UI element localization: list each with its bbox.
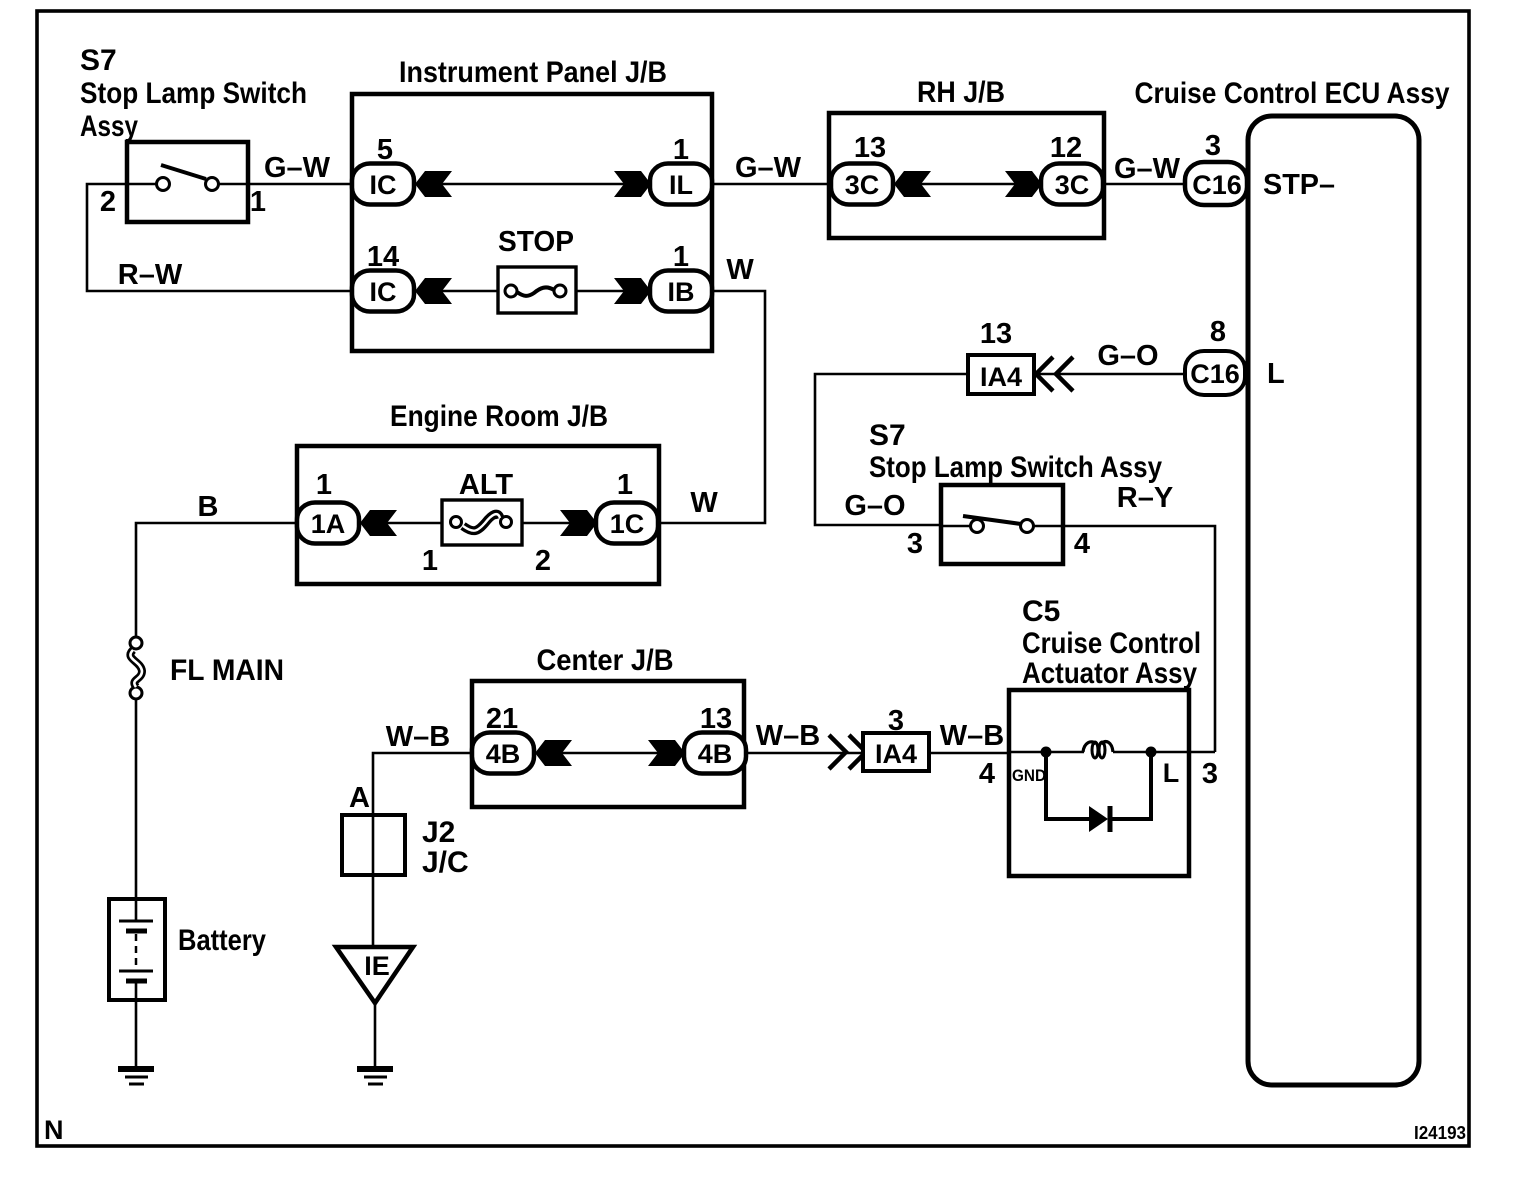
svg-text:Center J/B: Center J/B (537, 644, 674, 677)
arrow right row1 (614, 171, 651, 197)
connector 4B pin13 (684, 733, 746, 774)
arrow left row1 (415, 171, 452, 197)
svg-text:5: 5 (377, 134, 393, 166)
arrow left engine (360, 510, 397, 536)
switch S7 right blade (963, 516, 1021, 524)
connector C16 pin8 (1185, 351, 1245, 395)
svg-text:G–O: G–O (1097, 340, 1158, 372)
svg-text:IC: IC (370, 277, 397, 307)
arrow right center (648, 740, 685, 766)
svg-text:C16: C16 (1192, 170, 1242, 200)
svg-text:R–Y: R–Y (1117, 482, 1173, 514)
wire IB W down to 1C (658, 291, 765, 523)
connector 1C pin1 (596, 503, 658, 544)
svg-text:G–W: G–W (264, 152, 331, 184)
svg-text:FL MAIN: FL MAIN (170, 654, 284, 687)
svg-text:1: 1 (316, 469, 332, 501)
connector 3C pin13 (831, 164, 893, 205)
svg-text:STP–: STP– (1263, 169, 1335, 201)
svg-text:A: A (349, 782, 370, 814)
svg-text:3C: 3C (845, 170, 880, 200)
switch S7 left box (127, 142, 248, 222)
svg-text:L: L (1163, 758, 1180, 788)
ground IE (357, 1066, 393, 1072)
switch S7 left contacts (157, 178, 170, 191)
svg-text:G–O: G–O (844, 490, 905, 522)
wire center internal (534, 752, 684, 755)
svg-text:IA4: IA4 (980, 362, 1022, 392)
svg-text:GND: GND (1012, 766, 1046, 785)
svg-text:3C: 3C (1055, 170, 1090, 200)
svg-text:B: B (198, 491, 219, 523)
svg-text:1C: 1C (610, 509, 645, 539)
svg-text:2: 2 (535, 545, 551, 577)
arrow left row2 (415, 278, 452, 304)
wire switch to IC (248, 183, 352, 186)
wire B (136, 523, 297, 637)
actuator box (1009, 690, 1189, 876)
svg-text:8: 8 (1210, 316, 1226, 348)
wire W-B left (373, 753, 472, 815)
svg-text:W–B: W–B (386, 721, 450, 753)
svg-text:W–B: W–B (756, 720, 820, 752)
svg-text:4B: 4B (486, 739, 521, 769)
svg-text:J2: J2 (422, 816, 455, 849)
svg-text:Stop Lamp Switch Assy: Stop Lamp Switch Assy (869, 451, 1162, 484)
wire engine internal (359, 522, 443, 525)
svg-text:Actuator Assy: Actuator Assy (1022, 657, 1197, 690)
switch S7 left blade (161, 165, 206, 179)
svg-text:W: W (726, 254, 754, 286)
wire IA4 to switch (815, 374, 968, 525)
svg-text:13: 13 (980, 318, 1012, 350)
node L dot (1146, 747, 1157, 758)
ECU box (1248, 116, 1419, 1085)
svg-text:ALT: ALT (459, 469, 514, 501)
wire switch internal right (219, 183, 248, 186)
arrow right RH (1005, 171, 1042, 197)
svg-text:Battery: Battery (178, 924, 266, 957)
svg-text:IL: IL (669, 170, 693, 200)
junction J2 J/C (342, 815, 405, 875)
svg-text:1: 1 (250, 186, 266, 218)
node GND dot (1041, 747, 1052, 758)
svg-text:13: 13 (700, 703, 732, 735)
arrow left RH (894, 171, 931, 197)
svg-text:Cruise Control ECU Assy: Cruise Control ECU Assy (1135, 77, 1450, 110)
svg-text:13: 13 (854, 132, 886, 164)
ground triangle IE (336, 947, 413, 1003)
diode branch wires (1046, 752, 1089, 819)
actuator internal wire (1009, 751, 1084, 754)
svg-text:14: 14 (367, 241, 399, 273)
junction IA4 pin13 (968, 355, 1034, 394)
chevrons into IA4 right (829, 735, 846, 769)
switch S7 right box (941, 485, 1063, 564)
svg-text:RH J/B: RH J/B (917, 76, 1005, 109)
ground battery (118, 1066, 154, 1072)
chevrons into IA4 (1036, 357, 1053, 391)
svg-text:Cruise Control: Cruise Control (1022, 627, 1201, 660)
wire IP row2 internal (414, 290, 498, 293)
connector 4B pin21 (472, 733, 534, 774)
connector 3C pin12 (1041, 164, 1103, 205)
wire 3C to C16 (1103, 183, 1190, 186)
coil (1083, 742, 1096, 752)
battery (109, 899, 165, 1000)
svg-text:STOP: STOP (498, 226, 574, 258)
connector IB pin1 (650, 271, 712, 312)
svg-text:S7: S7 (869, 419, 906, 452)
svg-text:G–W: G–W (735, 152, 802, 184)
wire IL to RH J/B (712, 183, 831, 186)
svg-text:W: W (690, 487, 718, 519)
svg-text:2: 2 (100, 186, 116, 218)
connector IC pin14 (352, 271, 414, 312)
fusible link FL MAIN (130, 637, 142, 649)
RH J/B box (829, 113, 1104, 238)
wire RH internal (893, 183, 1041, 186)
svg-text:3: 3 (907, 528, 923, 560)
svg-text:1: 1 (422, 545, 438, 577)
wire IA4 to actuator (929, 752, 1009, 755)
svg-text:4: 4 (1074, 528, 1090, 560)
Engine Room J/B box (297, 446, 659, 584)
connector IC pin5 (352, 164, 414, 205)
svg-text:Engine Room J/B: Engine Room J/B (390, 400, 608, 433)
arrow right row2 (614, 278, 651, 304)
svg-text:IE: IE (364, 951, 390, 981)
wire battery to ground (135, 1000, 138, 1069)
svg-text:C5: C5 (1022, 595, 1060, 628)
wire switch2 internal (941, 525, 970, 528)
switch S7 right contacts (971, 520, 984, 533)
wire J2 to IE (372, 875, 375, 947)
svg-text:Assy: Assy (80, 110, 138, 143)
svg-text:4B: 4B (698, 739, 733, 769)
svg-text:Stop Lamp Switch: Stop Lamp Switch (80, 77, 307, 110)
svg-text:C16: C16 (1190, 359, 1240, 389)
Instrument Panel J/B box (352, 94, 712, 351)
wire FL MAIN to battery (135, 699, 138, 899)
svg-text:4: 4 (979, 758, 995, 790)
svg-text:1: 1 (617, 469, 633, 501)
diode (1089, 806, 1108, 832)
connector IL pin1 (650, 164, 712, 205)
svg-text:3: 3 (1205, 130, 1221, 162)
wire C16 L to IA4 (1034, 373, 1186, 376)
svg-text:G–W: G–W (1114, 153, 1181, 185)
svg-text:L: L (1267, 358, 1285, 390)
svg-text:12: 12 (1050, 132, 1082, 164)
svg-text:3: 3 (1202, 758, 1218, 790)
arrow left center (535, 740, 572, 766)
svg-text:R–W: R–W (118, 259, 183, 291)
svg-text:IA4: IA4 (875, 739, 917, 769)
Center J/B box (472, 681, 744, 807)
svg-text:1: 1 (673, 134, 689, 166)
svg-text:S7: S7 (80, 44, 117, 77)
wire switch internal left (127, 183, 156, 186)
wire pin2 down to R-W row (87, 184, 352, 291)
svg-text:IC: IC (370, 170, 397, 200)
svg-text:IB: IB (668, 277, 695, 307)
wire IE to ground (374, 1001, 377, 1069)
connector 1A pin1 (297, 503, 359, 544)
svg-text:21: 21 (486, 703, 518, 735)
svg-text:I24193: I24193 (1414, 1123, 1466, 1143)
junction IA4 pin3 (863, 733, 929, 771)
svg-text:W–B: W–B (940, 720, 1004, 752)
wire switch2 to actuator R-Y (1063, 526, 1215, 752)
svg-text:J/C: J/C (422, 846, 469, 879)
wire IP row1 internal (414, 183, 650, 186)
wire 4B to IA4 (746, 752, 863, 755)
svg-text:N: N (44, 1115, 64, 1145)
connector C16 pin3 (1185, 162, 1247, 205)
svg-text:1A: 1A (311, 509, 346, 539)
svg-text:Instrument Panel J/B: Instrument Panel J/B (399, 56, 667, 89)
svg-text:1: 1 (673, 241, 689, 273)
arrow right engine (560, 510, 597, 536)
svg-text:3: 3 (888, 705, 904, 737)
